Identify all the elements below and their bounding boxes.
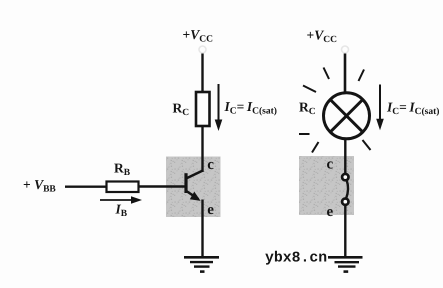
value label RC (left) bbox=[173, 100, 190, 118]
label +VCC (right) bbox=[307, 28, 338, 46]
label IB bbox=[115, 202, 128, 220]
lamp DS1 bbox=[324, 93, 370, 139]
svg-text:c: c bbox=[207, 157, 214, 173]
transistor Q1 emitter lead with arrow bbox=[186, 191, 201, 201]
node VCC terminal (right, faint) bbox=[342, 46, 349, 53]
label +VCC (left) bbox=[183, 27, 214, 45]
switch contact c (top) bbox=[342, 174, 348, 180]
label IC = IC(sat) (left) bbox=[224, 99, 277, 117]
current arrow IC (left) bbox=[215, 84, 223, 131]
watermark ybx8.cn bbox=[265, 251, 327, 267]
value label RC (right) bbox=[299, 99, 316, 117]
wire lamp to switch bbox=[344, 139, 346, 175]
wire VCC to RC (left) bbox=[201, 54, 203, 93]
wire RC to collector (left) bbox=[201, 126, 203, 172]
shaded switch region (right) bbox=[299, 156, 354, 215]
resistor RB bbox=[107, 182, 139, 193]
pin label c (right) bbox=[327, 157, 334, 173]
wire switch to ground (right) bbox=[344, 205, 346, 257]
svg-text:e: e bbox=[207, 202, 214, 218]
wire RB to base bbox=[139, 185, 186, 188]
wire emitter to ground (left) bbox=[201, 200, 203, 258]
light ray top-left bbox=[324, 68, 330, 80]
label +VBB bbox=[23, 177, 56, 195]
node VCC terminal (left, faint) bbox=[199, 46, 206, 53]
pin label e (left) bbox=[207, 202, 214, 218]
light ray top-right bbox=[359, 70, 365, 82]
light ray bottom-left bbox=[312, 142, 319, 153]
ground (left) bbox=[184, 257, 219, 271]
current arrow IC (right) bbox=[376, 85, 384, 131]
light ray left bbox=[299, 133, 310, 135]
light ray bottom-right bbox=[363, 140, 371, 150]
switch contact e (bottom) bbox=[342, 199, 348, 205]
wire VBB to RB bbox=[65, 185, 107, 187]
pin label e (right) bbox=[327, 204, 334, 220]
transistor Q1 base bar bbox=[184, 173, 187, 193]
label IC = IC(sat) (right) bbox=[386, 100, 439, 118]
light ray upper-left bbox=[303, 86, 316, 93]
pin label c (left) bbox=[207, 157, 214, 173]
resistor RC (left) bbox=[196, 92, 210, 126]
switch blade bbox=[346, 181, 348, 199]
shaded transistor region (left) bbox=[166, 157, 221, 218]
wire VCC to lamp bbox=[344, 54, 347, 95]
svg-text:e: e bbox=[327, 204, 334, 220]
svg-text:ybx8.cn: ybx8.cn bbox=[265, 251, 327, 267]
ground (right) bbox=[328, 257, 363, 271]
current arrow IB bbox=[100, 196, 142, 204]
transistor Q1 collector lead bbox=[186, 171, 203, 179]
value label RB bbox=[114, 161, 131, 179]
svg-text:c: c bbox=[327, 157, 334, 173]
